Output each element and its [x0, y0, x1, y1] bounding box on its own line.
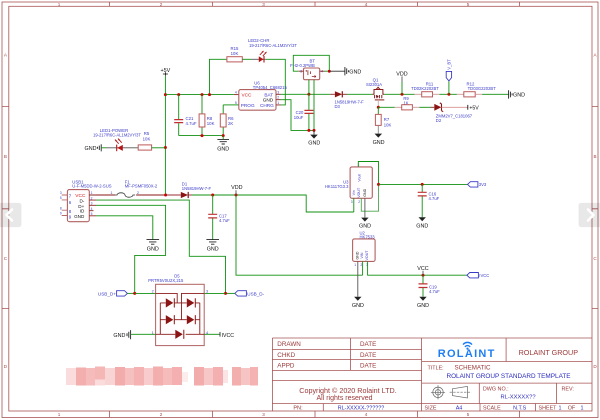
svg-text:TP4054_C668215: TP4054_C668215: [253, 85, 288, 90]
svg-text:LED1-POWER: LED1-POWER: [100, 128, 128, 133]
svg-text:5: 5: [235, 101, 237, 105]
svg-text:2: 2: [277, 96, 279, 100]
svg-text:10K: 10K: [231, 51, 239, 56]
svg-text:1: 1: [559, 405, 562, 411]
svg-text:VDD: VDD: [231, 185, 242, 191]
svg-text:SI2301A: SI2301A: [366, 82, 382, 87]
svg-text:PN:: PN:: [293, 405, 303, 411]
zone letters left: [4, 52, 8, 369]
svg-text:1: 1: [91, 191, 93, 195]
projection symbol cone: [450, 386, 472, 398]
svg-text:GND: GND: [416, 224, 428, 230]
node VDD tap middle: [235, 194, 238, 197]
wire R15 loop vertical: [210, 59, 227, 94]
wire U2 GND pin: [357, 261, 359, 296]
power flag +5V (right): [468, 105, 480, 111]
svg-text:4: 4: [235, 91, 237, 95]
power flag VDD (right): [396, 71, 407, 94]
LED LED2-CHR: [248, 38, 297, 63]
wire USB GND pin down: [96, 216, 153, 240]
svg-text:1: 1: [277, 101, 279, 105]
wire 3V3 row: [379, 183, 468, 185]
svg-text:PRTR5V0U2X,215: PRTR5V0U2X,215: [148, 278, 184, 283]
svg-text:RL-XXXXX??: RL-XXXXX??: [500, 395, 536, 401]
svg-text:3: 3: [351, 200, 353, 204]
node R6 bottom: [222, 134, 225, 137]
resistor R5: [138, 131, 165, 150]
node Q1 gate junction: [377, 106, 380, 109]
svg-text:3: 3: [262, 2, 265, 7]
node R8 bottom: [201, 134, 204, 137]
svg-text:Copyright © 2020 Rolaint LTD.: Copyright © 2020 Rolaint LTD.: [299, 386, 396, 395]
LED LED1-POWER: [93, 128, 141, 151]
ground (below R6): [217, 136, 229, 153]
svg-text:2: 2: [160, 412, 163, 417]
svg-text:VOUT: VOUT: [365, 250, 369, 261]
battery connector BT FH2-0.2PWB: [290, 59, 324, 80]
svg-text:VOUT: VOUT: [357, 187, 361, 198]
ground (below C16): [416, 217, 428, 229]
svg-text:LED2-CHR: LED2-CHR: [248, 38, 270, 43]
svg-text:2: 2: [160, 2, 163, 7]
svg-text:3V3: 3V3: [479, 182, 487, 187]
node +5V/VCC row junction: [164, 93, 167, 96]
svg-text:GND: GND: [363, 188, 367, 196]
svg-text:+5V: +5V: [469, 105, 479, 111]
svg-text:GND: GND: [217, 146, 229, 152]
right scroll chevron: [579, 203, 600, 227]
svg-text:GND: GND: [113, 333, 125, 339]
svg-text:A4: A4: [456, 405, 463, 411]
node U3 output: [377, 183, 380, 186]
wire to D5 pin2: [135, 292, 156, 294]
svg-text:10K: 10K: [384, 122, 392, 127]
svg-text:2: 2: [358, 200, 360, 204]
svg-text:2: 2: [91, 196, 93, 200]
svg-text:N.T.S: N.T.S: [513, 405, 527, 411]
svg-text:GND: GND: [352, 303, 364, 309]
svg-text:4: 4: [91, 207, 93, 211]
wire D5 pin3: [204, 292, 225, 294]
title block left column texts: [277, 341, 376, 369]
svg-text:4.7uF: 4.7uF: [219, 218, 230, 223]
svg-text:SCALE: SCALE: [483, 405, 501, 411]
ground (below R7): [373, 125, 385, 145]
svg-text:D3: D3: [335, 104, 341, 109]
svg-text:5: 5: [467, 2, 470, 7]
svg-text:B: B: [4, 154, 7, 159]
svg-text:4: 4: [365, 412, 368, 417]
svg-text:GND: GND: [147, 246, 159, 252]
wire PROG row: [223, 104, 239, 106]
ground (left of D5 pin1): [113, 330, 155, 339]
resistor R9: [395, 96, 420, 110]
svg-text:C16: C16: [429, 191, 437, 196]
wire gate row to R9: [378, 106, 395, 108]
svg-text:ID: ID: [80, 209, 85, 214]
svg-text:DRAWN: DRAWN: [277, 341, 301, 348]
svg-text:1: 1: [581, 405, 584, 411]
resistor R6: [220, 105, 234, 136]
svg-text:10K: 10K: [207, 121, 215, 126]
wire D3 to Q1: [347, 93, 373, 95]
net label IVCC (D5 pin4): [204, 332, 234, 339]
svg-text:HK1117G3.3: HK1117G3.3: [325, 184, 349, 189]
node C16 top: [421, 183, 424, 186]
svg-text:RL-XXXXX-??????: RL-XXXXX-??????: [338, 405, 384, 411]
resistor R11: [411, 81, 439, 96]
svg-text:D-: D-: [79, 199, 84, 204]
svg-text:GND: GND: [349, 69, 361, 75]
voltage regulator U3 HK1117G3.3: [325, 163, 372, 204]
svg-text:C19: C19: [429, 284, 437, 289]
node R15 loop/VCC row: [208, 93, 211, 96]
svg-text:4: 4: [365, 2, 368, 7]
svg-text:IVCC: IVCC: [479, 273, 489, 278]
projection symbol circle: [431, 385, 445, 399]
svg-text:TD02K2202BT: TD02K2202BT: [411, 86, 439, 91]
wire U3 Vin pin: [353, 198, 355, 212]
svg-text:U-F-M5DD-W-2-SUS: U-F-M5DD-W-2-SUS: [72, 184, 111, 189]
svg-text:TD03G2202BT: TD03G2202BT: [468, 86, 497, 91]
svg-text:1: 1: [111, 191, 113, 195]
svg-text:5: 5: [91, 212, 93, 216]
ROLAINT logo: [438, 342, 496, 359]
resistor R7: [375, 107, 391, 127]
capacitor C16: [418, 184, 440, 217]
svg-text:4.7uF: 4.7uF: [429, 196, 440, 201]
svg-text:SCHEMATIC: SCHEMATIC: [455, 365, 492, 372]
ground (below C17): [206, 240, 219, 253]
svg-text:OF: OF: [568, 405, 576, 411]
svg-text:IVCC: IVCC: [222, 333, 235, 339]
wire U6 GND pin to gnd rail: [281, 100, 315, 131]
svg-text:R12: R12: [467, 81, 475, 86]
wire BT pin3 down to gnd rail: [313, 80, 315, 131]
svg-text:GND: GND: [85, 146, 97, 152]
node USB_D- junction: [224, 292, 227, 295]
svg-text:USB_D-: USB_D-: [247, 291, 264, 296]
svg-text:4.7uF: 4.7uF: [186, 121, 197, 126]
wire U2 VIN pin: [362, 261, 364, 275]
ground (below U3): [359, 198, 371, 229]
diode D2 zener ZMM2V7: [431, 103, 473, 123]
svg-text:R15: R15: [231, 46, 239, 51]
capacitor C21: [174, 95, 197, 136]
wire VCC row to U6: [165, 94, 233, 96]
copyright text: [299, 386, 396, 402]
wire BT pin1 loop to GND: [293, 55, 329, 71]
svg-text:5: 5: [467, 412, 470, 417]
svg-text:10uF: 10uF: [294, 115, 304, 120]
svg-text:CHKD: CHKD: [277, 352, 295, 359]
resistor R15: [227, 46, 252, 62]
svg-text:DATE: DATE: [360, 341, 376, 348]
node fuse/+5V rail: [164, 194, 167, 197]
power flag VCC: [417, 266, 428, 275]
wire R12 to GND: [482, 93, 508, 95]
svg-text:2: 2: [137, 191, 139, 195]
resistor R8: [199, 95, 214, 136]
net flag V_BT: [446, 59, 451, 94]
node USB_D+ junction: [133, 292, 136, 295]
diode array D5 PRTR5V0U2X,215: [148, 274, 208, 346]
svg-text:DATE: DATE: [360, 352, 376, 359]
ground (below BT/C20): [308, 130, 320, 146]
node C21 top: [177, 93, 180, 96]
svg-text:DWG NO.:: DWG NO.:: [483, 387, 509, 393]
watermark mosaic: [66, 367, 258, 386]
svg-text:4.7uF: 4.7uF: [429, 289, 440, 294]
svg-text:1: 1: [58, 2, 61, 7]
zone letters right: [593, 52, 597, 369]
svg-text:REV:: REV:: [562, 387, 574, 393]
svg-text:BAT: BAT: [264, 92, 273, 97]
wire Q1 to R11: [384, 93, 414, 95]
svg-text:C21: C21: [186, 116, 194, 121]
svg-text:CHRG: CHRG: [260, 103, 274, 108]
wire BAT net: [281, 93, 331, 95]
node gnd rail end: [313, 129, 316, 132]
node V_BT junction: [447, 93, 450, 96]
node BT right pin: [328, 70, 331, 73]
net flag IVCC: [467, 273, 489, 279]
node +5V/LED row junction: [164, 146, 167, 149]
ground (right of BT): [329, 67, 361, 75]
wire USB D- routing: [96, 200, 226, 293]
svg-text:GND: GND: [417, 303, 429, 309]
ground (below USB1): [147, 240, 160, 253]
svg-text:2K: 2K: [228, 121, 233, 126]
wire bottom rail C21-R8-R6: [179, 135, 224, 137]
svg-text:SIZE: SIZE: [425, 405, 437, 411]
svg-text:R8: R8: [207, 116, 213, 121]
svg-text:3: 3: [206, 289, 208, 293]
svg-text:9: 9: [60, 212, 62, 216]
svg-text:1N5819HW-7-F: 1N5819HW-7-F: [182, 186, 212, 191]
net flag USB_D-: [226, 291, 265, 297]
svg-text:5: 5: [60, 196, 62, 200]
resistor R12: [457, 81, 496, 96]
svg-text:VCC: VCC: [242, 93, 253, 98]
svg-text:C17: C17: [219, 213, 227, 218]
node BAT/C20 junction: [307, 93, 310, 96]
svg-text:ROLAINT GROUP STANDARD TEMPLAT: ROLAINT GROUP STANDARD TEMPLATE: [446, 373, 570, 380]
svg-text:ROLAINT: ROLAINT: [438, 348, 496, 360]
svg-text:1: 1: [354, 263, 356, 267]
svg-text:R6: R6: [228, 116, 234, 121]
svg-text:R11: R11: [426, 81, 434, 86]
capacitor C20: [294, 94, 314, 130]
svg-text:DATE: DATE: [360, 363, 376, 370]
svg-text:TITLE:: TITLE:: [428, 366, 444, 372]
wire VDD row: [192, 195, 354, 212]
svg-text:GND: GND: [74, 214, 85, 219]
svg-text:10K: 10K: [143, 137, 151, 142]
svg-text:3: 3: [91, 202, 93, 206]
svg-text:USB_D+: USB_D+: [98, 291, 116, 296]
svg-text:D2: D2: [436, 118, 442, 123]
svg-text:R7: R7: [384, 117, 390, 122]
diode D3 1N5819HW-7-F: [330, 91, 364, 109]
node VCC tap: [422, 274, 425, 277]
svg-text:GND: GND: [308, 141, 320, 147]
svg-text:8: 8: [60, 206, 62, 210]
node C17 top: [211, 194, 214, 197]
wire VDD branch down to U2: [236, 195, 363, 275]
fuse F1 MF-PSMF050X-2: [96, 179, 166, 197]
svg-text:PROG: PROG: [241, 103, 255, 108]
op-amp U6 TP4054 charger: [235, 80, 288, 110]
wire U3 output loop: [358, 162, 378, 185]
voltage regulator U2 HK7533: [353, 230, 376, 267]
svg-text:SHEET: SHEET: [539, 405, 558, 411]
left scroll chevron: [0, 203, 21, 227]
capacitor C19: [419, 275, 441, 297]
svg-text:2: 2: [152, 289, 154, 293]
diode D1 1N5819HW-7-F: [166, 181, 212, 198]
svg-text:V_BT: V_BT: [447, 59, 452, 70]
wire R9 to D2: [419, 106, 430, 108]
svg-text:Vout: Vout: [358, 174, 362, 181]
capacitor C17: [208, 195, 230, 239]
wire BT pin2 down: [308, 80, 310, 95]
ground (below U2): [352, 297, 364, 309]
svg-text:GND: GND: [263, 98, 274, 103]
ground (left of LED1): [85, 144, 106, 152]
svg-text:VIN: VIN: [360, 252, 364, 258]
svg-text:GND: GND: [355, 251, 359, 259]
svg-text:All rights reserved: All rights reserved: [316, 395, 372, 402]
net flag 3V3: [468, 182, 487, 188]
svg-text:Vin: Vin: [352, 190, 356, 195]
svg-text:GND: GND: [359, 224, 371, 230]
wire +5V vertical rail: [164, 76, 166, 195]
wire U2 VOUT to IVCC: [368, 261, 467, 275]
ground (below C19): [417, 297, 429, 309]
svg-text:3: 3: [60, 191, 62, 195]
svg-text:ZMM2V7_C181067: ZMM2V7_C181067: [436, 114, 473, 119]
svg-text:ROLAINT GROUP: ROLAINT GROUP: [519, 348, 579, 357]
wire USB D+ routing: [96, 205, 166, 293]
svg-text:19-217/R6C-AL1M2VY/3T: 19-217/R6C-AL1M2VY/3T: [249, 43, 297, 48]
svg-text:R5: R5: [144, 131, 150, 136]
svg-text:3: 3: [262, 412, 265, 417]
node R8 top: [201, 93, 204, 96]
wire R11 to R12: [439, 93, 457, 95]
svg-text:1: 1: [58, 412, 61, 417]
svg-text:19-217/R6C-AL1M2VY/3T: 19-217/R6C-AL1M2VY/3T: [93, 133, 141, 138]
net flag USB_D+: [98, 291, 135, 297]
zone numbers top: [58, 2, 470, 7]
svg-text:C20: C20: [296, 110, 304, 115]
svg-text:GND: GND: [513, 93, 525, 99]
svg-text:GND: GND: [207, 246, 219, 252]
power flag +5V (top): [161, 68, 171, 76]
zone numbers bottom: [58, 412, 470, 417]
svg-text:B: B: [593, 154, 596, 159]
svg-text:APPD: APPD: [277, 363, 295, 370]
wire LED2 to CHRG: [266, 59, 286, 105]
node gnd rail C20: [307, 129, 310, 132]
connector USB1 U-F-M5DD-W-2-SUS: [60, 179, 112, 221]
svg-text:3: 3: [277, 90, 279, 94]
power flag VDD (middle): [231, 185, 242, 195]
node VDD tap right: [401, 93, 404, 96]
transistor Q1 SI2301A: [366, 78, 384, 108]
svg-text:GND: GND: [373, 140, 385, 146]
title block grid lines: [272, 338, 592, 411]
svg-text:2: 2: [360, 263, 362, 267]
svg-text:MF-PSMF050X-2: MF-PSMF050X-2: [125, 184, 158, 189]
ground (right of R12): [509, 90, 525, 98]
